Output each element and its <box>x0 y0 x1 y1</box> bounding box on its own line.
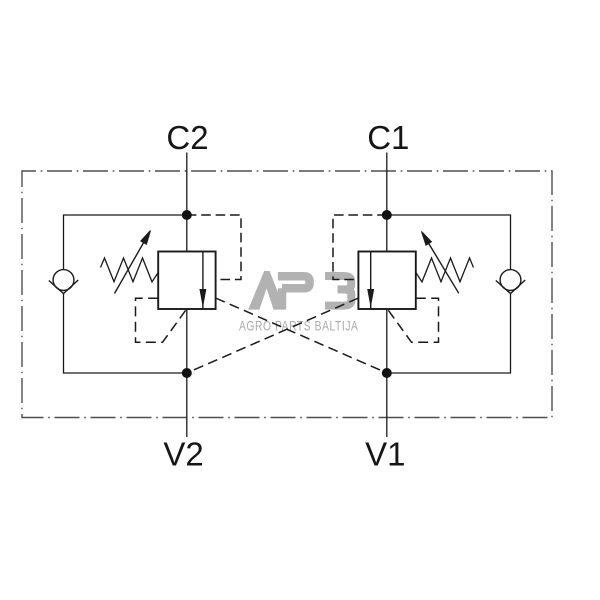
wire left check-valve branch upper <box>64 215 187 270</box>
wire C2 line top <box>186 153 188 252</box>
svg-text:V1: V1 <box>365 436 405 473</box>
check valve CV1 ball <box>500 270 521 291</box>
svg-text:C2: C2 <box>166 119 208 156</box>
svg-text:C1: C1 <box>367 119 409 156</box>
wire C1 line top <box>386 153 388 252</box>
pilot line left top loop (dashed) <box>187 215 241 280</box>
enclosure dash-dot border <box>22 171 552 418</box>
svg-text:AGRO PARTS BALTIJA: AGRO PARTS BALTIJA <box>239 318 359 334</box>
junction node C2 <box>182 210 192 220</box>
relief valve left flow arrowhead <box>199 289 206 308</box>
wire left check-valve branch lower <box>64 293 187 374</box>
pilot line left bottom box (dashed) <box>136 298 187 342</box>
wire C1 line bottom <box>386 309 388 437</box>
wire C2 line bottom <box>186 309 188 437</box>
relief valve body left (square) <box>158 252 215 310</box>
check valve CV2 seat <box>49 280 78 294</box>
adjustment arrow left head <box>141 231 151 245</box>
relief valve right flow line <box>370 252 372 309</box>
check valve CV2 ball <box>53 270 74 291</box>
spring left <box>101 258 159 282</box>
junction node V2 <box>182 368 192 378</box>
wire right check-valve branch upper <box>387 215 511 270</box>
relief valve right flow arrowhead <box>367 289 374 308</box>
junction node V1 <box>382 368 392 378</box>
pilot line right top loop (dashed) <box>333 215 387 280</box>
cross pilot line right-to-left (dashed diagonal) <box>187 298 359 373</box>
wire right check-valve branch lower <box>387 293 511 374</box>
adjustment arrow left shaft <box>115 243 144 294</box>
adjustment arrow right head <box>422 232 432 246</box>
svg-text:V2: V2 <box>163 436 203 473</box>
cross pilot line left-to-right (dashed diagonal) <box>216 298 387 373</box>
adjustment arrow right shaft <box>429 244 459 294</box>
relief valve body right (square) <box>358 252 415 310</box>
spring right <box>416 258 474 282</box>
junction node C1 <box>382 210 392 220</box>
watermark APB logo letter 3 <box>325 276 351 306</box>
relief valve left flow line <box>202 252 204 309</box>
check valve CV1 seat <box>496 280 525 294</box>
watermark APB logo letter P <box>278 276 310 309</box>
watermark APB logo letter A <box>248 271 284 310</box>
pilot line right bottom box (dashed) <box>388 298 439 342</box>
